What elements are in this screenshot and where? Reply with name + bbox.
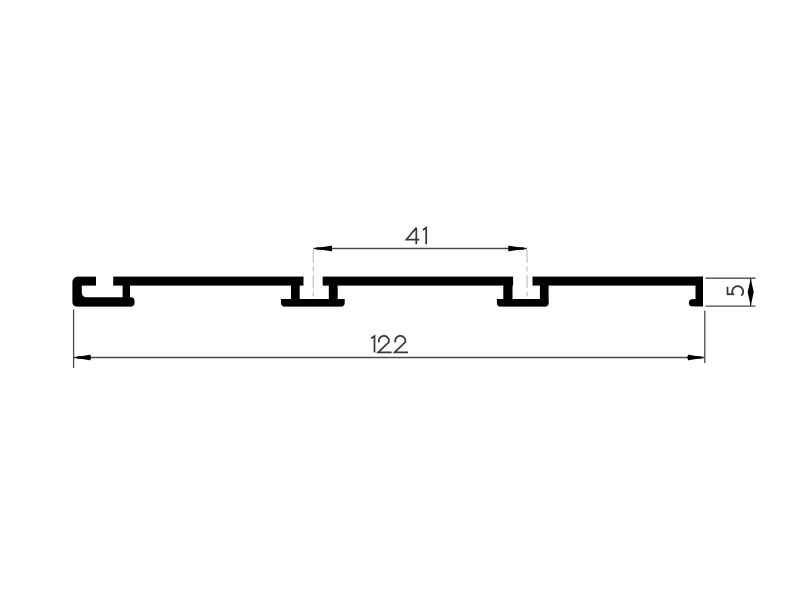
dimension 5: dimension line [750,278,752,306]
dimension 122: right extension line [704,311,706,364]
profile: top rail segment A [113,277,303,286]
profile: top rail segment B [323,277,513,286]
dimension 5: bottom extension line [706,305,756,307]
dimension 122: left arrowhead [74,355,91,361]
dimension 5: text "5" (rotated) [728,286,744,296]
dimension 41: right arrowhead [508,246,527,252]
feature 2: left hanger post [503,284,512,300]
dimension 5: bottom arrowhead [748,292,754,306]
dimension 5: top arrowhead [748,278,754,292]
dimension 41: left arrowhead [313,246,332,252]
dimension 122: right arrowhead [688,355,705,361]
profile: right end lip [696,277,704,307]
feature 1: right hanger post [329,284,338,300]
centerline through right slot (feature 2) [526,250,528,299]
dimension 5: top extension line [706,277,756,279]
dimension 122: text "122" [371,336,408,352]
dimension 41: dimension line [313,248,527,250]
profile: top rail segment C [533,277,704,286]
dimension 122: left extension line [73,310,75,369]
dimension 122: dimension line [74,357,705,359]
dimension 41: text "41" [406,228,426,245]
feature 1: bottom foot [281,299,345,307]
feature 1: left hanger post [291,284,300,300]
profile: left post joining bottom arm to rail [123,284,130,299]
centerline through left slot (feature 1) [312,250,314,299]
feature 2: bottom foot [497,299,549,307]
feature 2: right hanger post [540,284,549,300]
profile: left C-hook (wall + top arm + bottom arm) [72,277,134,307]
profile: right end foot [689,299,703,306]
